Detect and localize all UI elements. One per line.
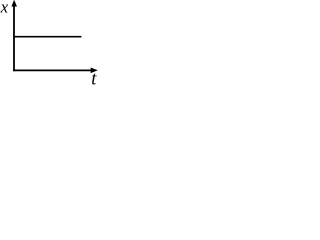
horizontal axis arrowhead xyxy=(91,68,97,72)
constant x(t) plot line xyxy=(13,36,81,38)
svg-text:t: t xyxy=(91,70,97,85)
vertical axis arrowhead xyxy=(12,1,16,6)
svg-text:x: x xyxy=(0,0,9,16)
vertical axis (x) wire xyxy=(13,5,15,71)
horizontal axis (t) wire xyxy=(13,69,91,71)
